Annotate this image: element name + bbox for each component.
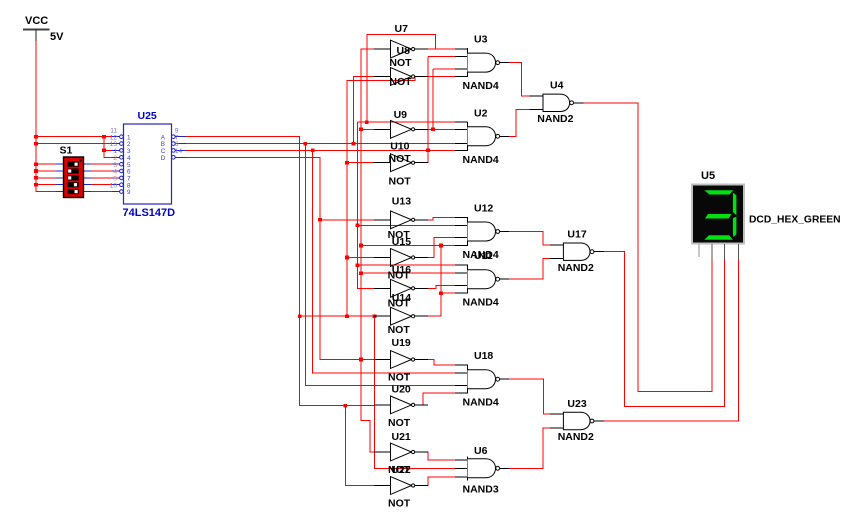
svg-text:VCC: VCC <box>25 15 48 27</box>
svg-text:14: 14 <box>175 148 183 155</box>
svg-text:U9: U9 <box>394 109 408 121</box>
svg-text:U20: U20 <box>392 384 411 396</box>
svg-text:U6: U6 <box>474 445 488 457</box>
svg-text:10: 10 <box>110 182 118 189</box>
svg-text:NOT: NOT <box>388 371 411 383</box>
svg-text:U16: U16 <box>392 264 411 276</box>
svg-text:NAND4: NAND4 <box>463 80 499 92</box>
svg-text:NOT: NOT <box>388 497 411 509</box>
svg-text:U11: U11 <box>474 250 493 262</box>
svg-text:U4: U4 <box>550 80 564 92</box>
svg-text:NAND3: NAND3 <box>463 483 499 495</box>
svg-text:U18: U18 <box>474 350 493 362</box>
svg-text:U23: U23 <box>567 398 586 410</box>
svg-text:U22: U22 <box>392 464 411 476</box>
svg-text:NAND4: NAND4 <box>463 154 499 166</box>
svg-text:74LS147D: 74LS147D <box>123 207 176 219</box>
svg-text:U2: U2 <box>474 107 488 119</box>
svg-text:U14: U14 <box>392 292 411 304</box>
svg-text:NAND2: NAND2 <box>558 431 594 443</box>
svg-text:U7: U7 <box>395 23 409 35</box>
svg-text:U25: U25 <box>138 110 157 122</box>
svg-text:NOT: NOT <box>389 57 412 69</box>
svg-text:U17: U17 <box>567 229 586 241</box>
svg-text:NAND4: NAND4 <box>463 297 499 309</box>
svg-text:NAND4: NAND4 <box>463 397 499 409</box>
svg-text:NAND2: NAND2 <box>558 262 594 274</box>
svg-text:9: 9 <box>127 189 131 196</box>
svg-text:U5: U5 <box>701 170 715 182</box>
svg-text:NOT: NOT <box>388 324 411 336</box>
svg-text:NOT: NOT <box>389 175 412 187</box>
svg-text:NOT: NOT <box>388 417 411 429</box>
svg-text:U19: U19 <box>392 337 411 349</box>
svg-text:DCD_HEX_GREEN: DCD_HEX_GREEN <box>749 215 841 226</box>
svg-text:U13: U13 <box>392 195 411 207</box>
svg-text:NOT: NOT <box>389 76 412 88</box>
svg-text:U3: U3 <box>474 34 488 46</box>
svg-text:5V: 5V <box>50 31 64 43</box>
svg-text:D: D <box>161 155 166 162</box>
svg-text:U12: U12 <box>474 203 493 215</box>
svg-text:U8: U8 <box>397 45 411 57</box>
svg-text:U15: U15 <box>392 236 411 248</box>
svg-text:S1: S1 <box>60 145 73 157</box>
svg-text:U21: U21 <box>392 431 411 443</box>
svg-text:NAND2: NAND2 <box>537 113 573 125</box>
svg-text:U10: U10 <box>390 141 409 153</box>
